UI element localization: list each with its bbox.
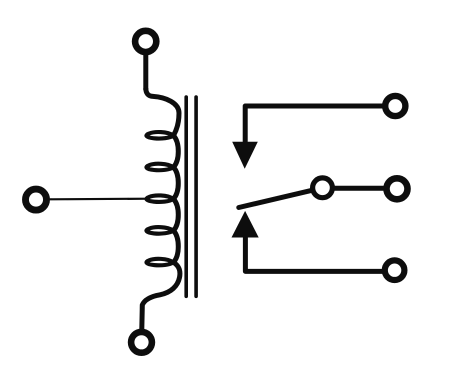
relay coil L1 (bumps) <box>142 88 180 330</box>
coil crossover loop 5 <box>147 259 174 266</box>
terminal T4 (NC contact, top right) <box>385 96 405 116</box>
coil crossover loop 3 <box>147 195 174 202</box>
switch arm <box>239 190 313 207</box>
terminal T3 (coil tap, left) <box>26 189 47 210</box>
core line 1 <box>184 97 188 296</box>
terminal T1 (coil top) <box>135 31 156 52</box>
wire T4 to down-arrow <box>245 106 383 143</box>
tap wire (thin) <box>50 198 151 201</box>
arrowhead down <box>232 142 258 169</box>
coil crossover loop 1 <box>147 132 174 139</box>
wire pivot to T5 <box>333 186 385 191</box>
wire T1 to coil <box>143 52 148 90</box>
arrowhead up <box>232 211 259 238</box>
pivot circle <box>313 178 333 198</box>
core line 2 <box>194 97 198 296</box>
coil crossover loop 4 <box>147 227 174 234</box>
terminal T5 (common, middle right) <box>387 178 408 199</box>
terminal T2 (coil bottom) <box>131 332 152 353</box>
terminal T6 (NO contact, bottom right) <box>385 260 405 280</box>
coil crossover loop 2 <box>147 164 174 171</box>
wire T6 to up-arrow <box>245 236 383 271</box>
